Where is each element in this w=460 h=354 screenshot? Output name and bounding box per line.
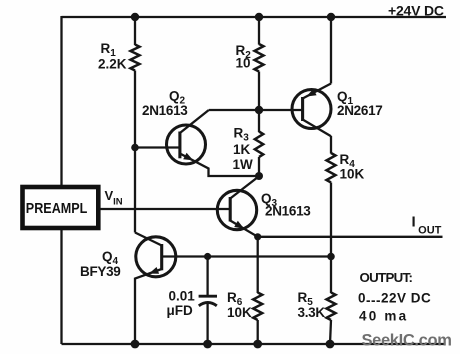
node junction dot R4 / R5 / Q4 base: [327, 253, 335, 261]
wire R3 top lead: [258, 110, 260, 132]
transistor Q4 BFY39: [135, 233, 176, 345]
node junction dot R3 / Q2 emitter / Q3 collector: [255, 172, 263, 180]
resistor R5: [327, 293, 336, 321]
wire R6 bottom lead: [257, 320, 259, 344]
svg-text:PREAMPL: PREAMPL: [26, 199, 88, 216]
block PREAMPL: [23, 187, 99, 228]
resistor R2: [255, 44, 264, 72]
svg-text:+24V DC: +24V DC: [388, 3, 444, 19]
svg-text:1K: 1K: [233, 142, 251, 157]
node junction dot top rail / R2: [255, 13, 263, 21]
wire Q1 collector lead to R4: [330, 136, 332, 154]
wire VIN from PREAMPL output to Q3 base: [100, 208, 230, 210]
node junction dot top rail / Q1 emitter: [327, 13, 335, 21]
wire R6 top lead: [257, 237, 259, 293]
wire capacitor bottom lead: [206, 304, 208, 345]
wire R1 top lead: [134, 17, 136, 45]
wire Q1 emitter vertical from +24V rail: [330, 17, 332, 84]
node junction dot ground rail / R5: [326, 340, 335, 349]
wire left vertical from +24V rail to PREAMPL top: [60, 16, 62, 187]
node junction dot capacitor tap on Q4 base wire: [204, 253, 211, 260]
node junction dot top rail / R1: [131, 13, 139, 21]
svg-text:10K: 10K: [227, 305, 252, 320]
svg-text:2N2617: 2N2617: [337, 103, 383, 118]
svg-text:10: 10: [236, 56, 251, 71]
svg-text:40 ma: 40 ma: [359, 309, 408, 324]
wire R1 bottom lead to Q2 base node: [134, 71, 136, 148]
svg-text:BFY39: BFY39: [80, 264, 121, 279]
wire bottom common rail: [62, 343, 446, 345]
wire R2 bottom lead: [258, 72, 260, 111]
svg-text:1W: 1W: [233, 157, 254, 172]
wire Q2 collector horizontal run to Q1 base: [209, 109, 303, 111]
node junction dot R1 / Q2 base / Q4 collector: [131, 144, 139, 152]
node junction dot ground rail / capacitor: [203, 340, 212, 349]
wire R5 top lead: [330, 257, 332, 294]
wire IOUT output line: [258, 236, 443, 238]
resistor R4: [327, 153, 336, 183]
node junction dot R2 / R3 / Q1 base wire: [255, 106, 263, 114]
transistor Q3 2N1613: [217, 176, 259, 237]
wire R4 bottom lead across IOUT to R5 node: [330, 183, 332, 257]
wire R2 top lead: [258, 17, 260, 45]
svg-text:μFD: μFD: [167, 303, 194, 318]
wire from Q2 base node down across VIN to Q4 collector bend: [134, 148, 136, 233]
capacitor C1 0.01 uFD: [199, 296, 217, 306]
transistor Q2 2N1613: [135, 110, 259, 176]
node junction dot ground rail / R6: [253, 340, 262, 349]
svg-text:2.2K: 2.2K: [98, 57, 127, 72]
svg-text:3.3K: 3.3K: [298, 305, 326, 320]
svg-text:OUTPUT:: OUTPUT:: [360, 270, 413, 285]
wire R3 bottom lead: [258, 157, 260, 176]
wire +24V top supply rail: [62, 16, 447, 18]
svg-text:2N1613: 2N1613: [142, 103, 188, 118]
node junction dot Q3 emitter / R6 / IOUT: [254, 233, 261, 240]
wire left vertical from PREAMPL bottom to ground rail: [60, 228, 62, 344]
svg-text:SeekIC.com: SeekIC.com: [362, 332, 452, 350]
svg-text:0.01: 0.01: [169, 289, 196, 304]
wire R5 bottom lead: [330, 320, 331, 344]
resistor R3: [255, 132, 263, 158]
svg-text:0---22V DC: 0---22V DC: [358, 291, 431, 309]
svg-text:10K: 10K: [340, 167, 365, 182]
node junction dot ground rail / Q4 emitter: [131, 340, 140, 349]
wire capacitor top lead: [206, 257, 208, 296]
transistor Q1 2N2617: [292, 84, 331, 137]
wire Q4 base to R4/R5 junction: [162, 255, 331, 257]
resistor R6: [253, 293, 262, 321]
resistor R1: [131, 45, 140, 71]
svg-text:2N1613: 2N1613: [265, 204, 311, 219]
